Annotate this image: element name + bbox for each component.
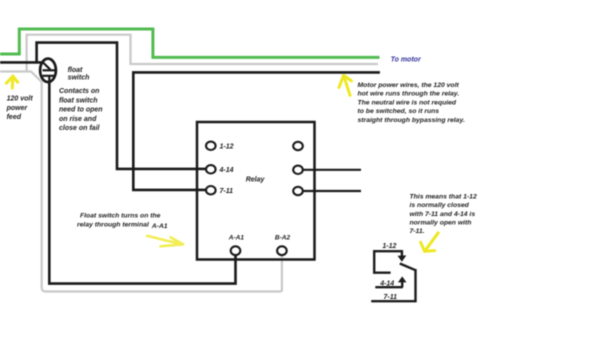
svg-text:7-11: 7-11	[220, 188, 234, 195]
svg-text:straight through bypassing rel: straight through bypassing relay.	[358, 117, 465, 124]
svg-text:The neutral wire is not requie: The neutral wire is not requied	[358, 99, 457, 106]
svg-text:Relay: Relay	[246, 177, 266, 184]
svg-text:120 volt: 120 volt	[7, 96, 34, 103]
svg-text:on rise and: on rise and	[59, 116, 97, 123]
svg-text:to be switched, so it runs: to be switched, so it runs	[358, 108, 440, 115]
svg-text:feed: feed	[7, 114, 22, 121]
svg-text:float switch: float switch	[59, 97, 98, 104]
svg-text:hot wire runs through the rela: hot wire runs through the relay.	[358, 91, 460, 98]
svg-text:7-11.: 7-11.	[410, 228, 425, 235]
svg-text:power: power	[6, 105, 29, 112]
svg-text:normally open with: normally open with	[410, 220, 472, 227]
svg-text:Motor power wires, the 120 vol: Motor power wires, the 120 volt	[358, 82, 460, 89]
svg-text:1-12: 1-12	[382, 243, 396, 250]
svg-text:float: float	[68, 67, 83, 74]
svg-text:Contacts on: Contacts on	[59, 88, 99, 95]
svg-text:To motor: To motor	[391, 57, 422, 64]
svg-text:This means that 1-12: This means that 1-12	[410, 193, 477, 200]
svg-text:1-12: 1-12	[220, 144, 234, 151]
svg-text:4-14: 4-14	[379, 280, 394, 287]
svg-text:7-11: 7-11	[384, 294, 398, 301]
svg-text:A-A1: A-A1	[151, 223, 168, 230]
svg-text:Float switch turns on the: Float switch turns on the	[80, 213, 161, 220]
svg-text:close on fail: close on fail	[59, 125, 101, 132]
svg-text:with 7-11 and 4-14 is: with 7-11 and 4-14 is	[410, 211, 476, 218]
svg-text:A-A1: A-A1	[228, 235, 245, 242]
svg-text:4-14: 4-14	[219, 167, 234, 174]
svg-text:need to open: need to open	[59, 107, 103, 114]
svg-text:is normally closed: is normally closed	[410, 202, 470, 209]
svg-text:B-A2: B-A2	[275, 235, 291, 242]
svg-text:switch: switch	[68, 75, 90, 82]
svg-text:relay through terminal: relay through terminal	[77, 221, 149, 228]
